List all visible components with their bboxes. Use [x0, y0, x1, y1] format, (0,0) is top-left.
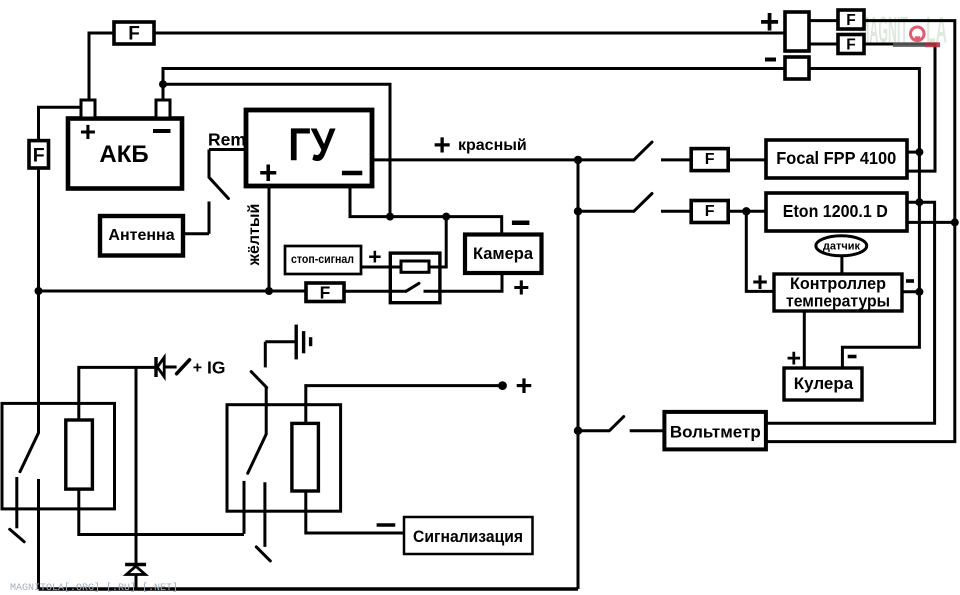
junction ground rail / controller minus: [915, 288, 923, 296]
svg-text:MAGNITOLA[.ORG] [.RU] [.NET]: MAGNITOLA[.ORG] [.RU] [.NET]: [10, 582, 178, 594]
fuse F Eton line: [691, 201, 728, 223]
junction ground rail / Focal upper pin: [915, 148, 923, 156]
camera box: [465, 235, 542, 274]
relay2 switch blade: [248, 434, 267, 473]
relay2 switch lower stub left: [243, 481, 246, 534]
wire relay1 coil top to LED rail: [79, 367, 155, 420]
svg-text:Сигнализация: Сигнализация: [413, 527, 523, 546]
wire yellow rail fuse to stop relay: [344, 290, 406, 293]
alarm box (Сигнализация): [404, 517, 533, 554]
fuse F top-left: [114, 22, 154, 45]
svg-text:+: +: [193, 359, 202, 376]
junction GU minus rail / battery minus branch: [386, 213, 394, 221]
wire Eton lower pin to right rail: [907, 221, 955, 224]
svg-text:+: +: [513, 272, 529, 303]
switch voltmeter line: [578, 417, 664, 431]
label - (top right): [765, 58, 776, 62]
relay1 switch lower stub left with tick: [10, 477, 25, 542]
svg-text:Вольтметр: Вольтметр: [670, 423, 761, 442]
wire fuse to Eton: [728, 210, 766, 213]
battery AKB: [68, 100, 182, 189]
relay2 switch lower stub right with tick: [256, 482, 270, 561]
switch Focal line: [578, 142, 693, 160]
svg-text:красный: красный: [458, 137, 527, 154]
svg-text:F: F: [33, 145, 45, 167]
switch Rem: [209, 150, 228, 234]
wire plus block to fuse F1: [809, 19, 838, 22]
label + красный: [433, 129, 526, 162]
voltmeter box: [664, 412, 766, 450]
temperature controller box: [774, 274, 902, 311]
wire relay coil to GU minus rail: [429, 217, 446, 267]
svg-text:ГУ: ГУ: [288, 118, 336, 170]
relay1 box: [2, 403, 115, 509]
label - camera: [512, 221, 530, 226]
wire relay1 coil bottom to relay2 switch: [79, 489, 244, 534]
wire antenna to Rem switch: [183, 232, 209, 235]
svg-text:Focal FPP 4100: Focal FPP 4100: [776, 148, 896, 168]
wire controller plus from Eton line: [746, 211, 774, 291]
label - coolers: [848, 355, 857, 359]
relay1 coil: [66, 420, 93, 489]
wire top fuse to plus distribution block: [154, 32, 785, 35]
wire GU remote out (red) to mid rail: [372, 158, 578, 161]
svg-text:температуры: температуры: [786, 292, 890, 311]
ground symbol: [265, 325, 310, 360]
distribution block minus: [785, 57, 809, 79]
svg-text:Контроллер: Контроллер: [790, 274, 886, 293]
watermark magnitola top-right (letters, behind wires): [859, 10, 947, 51]
relay2 box: [227, 405, 341, 512]
wire GU plus (yellow) down to yellow rail: [268, 186, 271, 291]
amplifier Eton 1200.1 D: [766, 193, 907, 231]
junction yellow wire / yellow rail: [265, 287, 273, 295]
terminal dot plus: [498, 381, 507, 390]
wire diode to bottom rail: [135, 576, 138, 590]
watermark magnitola top-right (ring and bars): [893, 27, 940, 47]
fuse F yellow rail: [306, 283, 344, 303]
wire F2 down to Focal lower-right pin: [864, 44, 935, 171]
fuse F2 top-right: [838, 35, 864, 54]
wire battery plus to left fuse and down left rail: [39, 107, 82, 140]
junction F1 rail / Eton lower pin: [951, 218, 959, 226]
switch ground to relay2: [251, 342, 267, 435]
svg-text:F: F: [705, 151, 715, 168]
svg-text:жёлтый: жёлтый: [246, 204, 263, 267]
wire controller to coolers plus: [803, 311, 806, 368]
junction left rail / yellow rail: [35, 287, 43, 295]
wire yellow rail left part: [39, 290, 307, 293]
stop-signal box: [285, 246, 361, 274]
junction ground rail / Eton upper pin: [915, 198, 923, 206]
wire relay switch to camera plus: [424, 272, 503, 291]
fuse F Focal line: [691, 149, 728, 171]
junction GU minus rail / stop relay coil branch: [442, 213, 450, 221]
svg-text:F: F: [128, 24, 140, 45]
wire mid rail vertical: [577, 160, 580, 589]
junction mid rail / red wire: [574, 156, 582, 164]
svg-text:Rem: Rem: [208, 129, 246, 149]
wire relay2 coil top to plus terminal: [306, 386, 503, 424]
label - alarm: [377, 523, 396, 527]
amplifier Focal FPP 4100: [766, 140, 907, 178]
fuse F1 top-right: [838, 10, 864, 29]
wire F1 along right rail down to voltmeter lower pin: [765, 21, 955, 442]
svg-text:датчик: датчик: [823, 241, 861, 253]
wire controller minus to ground rail: [902, 290, 919, 293]
svg-text:Eton 1200.1 D: Eton 1200.1 D: [783, 201, 888, 221]
svg-text:F: F: [846, 37, 855, 54]
wire battery minus terminal riser to minus block: [163, 69, 785, 101]
svg-text:+: +: [752, 267, 768, 297]
svg-text:АКБ: АКБ: [99, 141, 148, 168]
switch Eton line: [578, 194, 693, 212]
svg-text:+: +: [760, 3, 780, 41]
svg-text:Антенна: Антенна: [108, 227, 174, 244]
wire ignition branch down to diode: [135, 367, 138, 563]
distribution block plus: [785, 12, 809, 51]
relay (stop) box: [390, 253, 440, 303]
svg-text:Камера: Камера: [473, 245, 534, 263]
svg-text:IG: IG: [207, 358, 225, 378]
relay (stop) switch blade: [406, 283, 419, 291]
svg-text:стоп-сигнал: стоп-сигнал: [291, 254, 354, 266]
wire left rail from fuse down to relay1 switch: [37, 168, 40, 433]
svg-text:F: F: [705, 203, 715, 220]
wire minus block to ground rail down left to coolers: [809, 69, 919, 369]
wire relay2 coil bottom to alarm box: [306, 491, 404, 533]
junction Eton line / controller plus branch: [742, 207, 750, 215]
fuse F left: [29, 141, 49, 168]
head unit GU: [246, 110, 372, 190]
label - controller: [906, 279, 914, 283]
diode LED (ignition): [156, 357, 190, 377]
coolers box (Кулера): [784, 368, 862, 400]
wire battery minus branch to GU minus rail: [163, 84, 390, 216]
wire plus block to fuse F2: [809, 43, 838, 46]
diode bottom: [125, 565, 146, 575]
svg-text:F: F: [320, 283, 331, 303]
svg-text:+: +: [516, 371, 533, 403]
wire fuse to Focal: [728, 158, 766, 161]
junction mid rail / Eton line: [574, 207, 582, 215]
junction mid rail / voltmeter line: [574, 427, 582, 435]
svg-text:Кулера: Кулера: [794, 374, 854, 393]
relay (stop) coil: [401, 261, 429, 272]
antenna box: [100, 216, 183, 256]
svg-text:+: +: [433, 129, 451, 162]
relay2 coil: [292, 423, 319, 491]
wire GU minus down and rail to camera top: [350, 186, 502, 235]
svg-text:+: +: [259, 154, 278, 190]
svg-text:+: +: [80, 116, 96, 147]
svg-text:F: F: [846, 12, 855, 29]
sensor (датчик) ellipse: [816, 236, 867, 256]
junction battery minus riser: [159, 80, 167, 88]
wire Eton upper pin across ground rail down to voltmeter upper pin: [765, 202, 935, 423]
relay1 switch blade: [20, 433, 39, 472]
wire bottom rail: [39, 587, 579, 590]
wire stop-signal to relay coil: [361, 266, 401, 269]
wire Focal upper pin to ground rail: [907, 151, 919, 154]
wire Rem to GU: [209, 148, 246, 151]
wire battery plus terminal up to top fuse: [89, 33, 114, 100]
relay1 switch lower stub right to bottom rail: [37, 479, 40, 589]
wire sensor to controller: [840, 256, 843, 274]
